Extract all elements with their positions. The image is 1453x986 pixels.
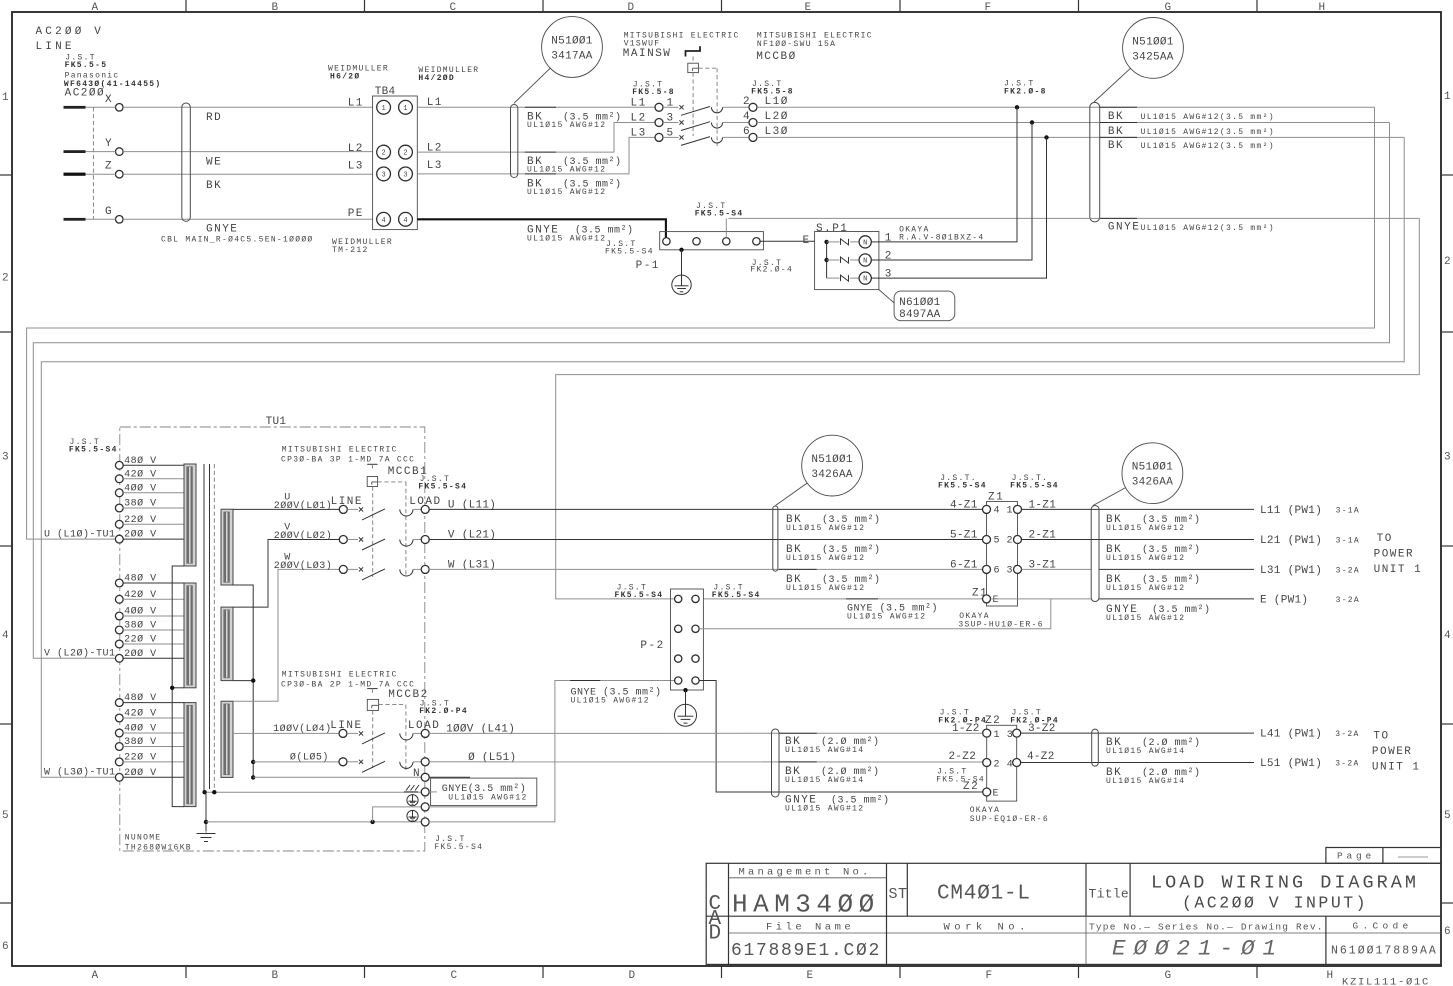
svg-text:1: 1 [2,92,9,104]
svg-text:GNYE: GNYE [1108,222,1140,234]
svg-text:N51ØØ1: N51ØØ1 [1132,462,1174,474]
wire P-2 row4 to Z2 E [699,681,983,793]
svg-text:HAM34ØØ: HAM34ØØ [732,890,880,920]
svg-text:ST: ST [889,886,908,903]
balloon N51001 3426AA left [776,435,863,505]
wire L51 emphasized segment [779,761,817,763]
P-1 terminal 1 [663,238,670,245]
svg-text:2-Z2: 2-Z2 [949,751,977,763]
TU1 output terminal frame 777 [404,785,419,792]
svg-text:L2: L2 [631,113,647,125]
P-2 terminal pair 2 [675,625,682,632]
ground TU1 frame [197,833,216,842]
svg-text:L51 (PW1): L51 (PW1) [1260,758,1322,770]
Z1 pin E [983,595,991,603]
svg-text:N: N [863,276,867,284]
svg-text:4-Z1: 4-Z1 [950,499,978,511]
cable marker right (3425AA) [1090,102,1100,222]
Z2 pin 3 (3-Z2) [1013,729,1021,737]
svg-text:E: E [993,788,1000,799]
svg-text:NF1ØØ-SWU 15A: NF1ØØ-SWU 15A [757,40,836,49]
wire G-PE (GNYE) [86,218,116,220]
svg-text:UL1Ø15 AWG#12: UL1Ø15 AWG#12 [786,524,865,533]
P-1 terminal 2 [693,238,700,245]
Z1 pin 4 (4-Z1) [983,505,991,513]
svg-text:EØØ21-Ø1: EØØ21-Ø1 [1112,936,1284,962]
svg-text:G.Code: G.Code [1353,921,1413,932]
svg-text:L3: L3 [631,127,647,139]
svg-text:E: E [803,235,811,247]
MAINSW linkage dashed lines [692,73,694,136]
TB4 terminal pair 1 [377,100,391,114]
svg-text:4: 4 [743,111,750,123]
svg-text:N: N [863,239,867,247]
svg-text:3SUP-HU1Ø-ER-6: 3SUP-HU1Ø-ER-6 [958,621,1043,630]
svg-text:X: X [105,94,113,106]
svg-text:1: 1 [381,105,385,113]
wire Y-L2 (WE) [86,151,116,153]
svg-text:UL1Ø15 AWG#12: UL1Ø15 AWG#12 [786,584,865,593]
svg-text:C: C [450,2,457,14]
svg-text:6-Z1: 6-Z1 [950,559,978,571]
wire L20 emphasized segment [1100,122,1137,124]
svg-text:UL1Ø15 AWG#14: UL1Ø15 AWG#14 [1106,777,1185,786]
svg-text:2: 2 [743,96,750,108]
svg-text:FK2.Ø-4: FK2.Ø-4 [750,266,793,275]
svg-text:AC2ØØ: AC2ØØ [65,88,106,100]
balloon N51001 3417AA [514,17,603,104]
svg-text:3426AA: 3426AA [1132,477,1174,489]
Z2 pin E [983,788,991,796]
P-1 earth connection [679,248,683,252]
svg-text:UL1Ø15 AWG#12: UL1Ø15 AWG#12 [448,794,527,803]
svg-text:3: 3 [381,172,385,180]
svg-text:L1: L1 [348,98,364,110]
svg-text:6: 6 [743,126,750,138]
Z2 pin 1 (1-Z2) [983,729,991,737]
GNYE callout box at N [431,778,537,806]
MCCB2 linkage dashed lines [372,710,374,768]
svg-text:TO: TO [1373,731,1389,743]
MCCB1 pole U (L11) [339,505,347,513]
wire N to TU1 terminal [253,776,421,778]
svg-text:3: 3 [1007,730,1014,741]
svg-text:1: 1 [1444,91,1451,103]
svg-text:2: 2 [885,251,892,263]
TU1 primary winding 1 [184,464,196,566]
wire GNYE top to right [729,217,1420,219]
svg-text:C: C [451,970,458,982]
P-2 terminal pair 1 [675,595,682,602]
Z2 pin 4 (4-Z2) [1013,759,1021,767]
svg-text:4: 4 [2,630,9,642]
terminal strip P-2 [671,589,704,690]
TU1 secondary common link [233,585,253,777]
cable marker bottom-right [1092,729,1099,766]
MAINSW mechanism box [692,57,694,64]
wire E GNYE to Z1 [703,598,982,600]
svg-text:H6/2Ø: H6/2Ø [330,73,361,82]
svg-text:3-2A: 3-2A [1336,596,1360,605]
svg-text:BK: BK [1108,140,1124,152]
svg-text:6: 6 [1444,926,1451,938]
svg-text:FK5.5-S4: FK5.5-S4 [434,843,483,852]
svg-text:LINE: LINE [331,496,363,508]
wire L2 TB4 to MAINSW [417,123,655,153]
svg-text:N61ØØ1: N61ØØ1 [899,297,941,309]
svg-text:LOAD WIRING DIAGRAM: LOAD WIRING DIAGRAM [1151,873,1419,894]
svg-text:3: 3 [1007,565,1014,576]
svg-text:L31 (PW1): L31 (PW1) [1260,565,1322,577]
svg-text:FK5.5-5: FK5.5-5 [65,61,108,70]
junction L10 to S.P1 [1015,105,1019,109]
svg-text:UNIT 1: UNIT 1 [1372,762,1421,774]
svg-text:TO: TO [1377,533,1393,545]
svg-text:FK2.Ø-P4: FK2.Ø-P4 [938,716,987,725]
P-2 terminal pair 3 [675,655,682,662]
svg-text:1: 1 [403,105,407,113]
svg-text:L1: L1 [631,97,647,109]
svg-text:4-Z2: 4-Z2 [1027,751,1055,763]
wire P-2 row2 to E net [699,599,1051,629]
svg-text:2: 2 [994,759,1001,770]
wire W(L31) emphasized segment [779,568,817,570]
svg-text:N: N [413,768,421,780]
svg-text:KZIL111-Ø1C: KZIL111-Ø1C [1342,977,1430,986]
TB4 terminal pair 4 [377,212,391,226]
wire L10 [757,106,1375,108]
svg-text:UL1Ø15 AWG#12: UL1Ø15 AWG#12 [527,188,606,197]
svg-text:GNYE: GNYE [206,224,238,236]
svg-text:1: 1 [885,232,892,244]
svg-text:Management No.: Management No. [739,867,872,879]
wire L41 emphasized segment [779,732,817,734]
cable marker mid (3417AA) [511,105,518,178]
svg-text:B: B [272,970,279,982]
svg-text:UL1Ø15 AWG#14: UL1Ø15 AWG#14 [785,746,864,755]
svg-text:G: G [1165,2,1172,14]
svg-text:3: 3 [403,172,407,180]
page box [1326,848,1441,864]
svg-text:L3Ø: L3Ø [765,126,789,138]
MCCB1 pole W (L31) [339,565,347,573]
Z1 pin 1 (1-Z1) [1014,505,1022,513]
svg-text:2ØØV(LØ2): 2ØØV(LØ2) [274,530,333,542]
svg-text:TU1: TU1 [266,416,287,428]
TU1 primary winding 2 [184,583,196,688]
svg-text:2: 2 [1444,256,1451,268]
svg-text:Z1: Z1 [972,588,988,600]
svg-text:NUNOME: NUNOME [125,834,162,843]
svg-text:H: H [1327,970,1334,982]
MAINSW pole L2 contact [663,122,679,124]
MAINSW pole L1 contact [663,106,679,108]
svg-text:2ØØV(LØ3): 2ØØV(LØ3) [274,560,333,572]
svg-text:3-2A: 3-2A [1336,567,1360,576]
svg-text:L2Ø: L2Ø [765,111,789,123]
MAINSW pole L2 output terminal pin 4 (L2Ø) [749,119,757,127]
svg-text:POWER: POWER [1372,746,1413,758]
svg-text:UL1Ø15 AWG#12: UL1Ø15 AWG#12 [1106,554,1185,563]
terminal strip P-1 [660,232,764,250]
svg-text:R.A.V-8Ø1BXZ-4: R.A.V-8Ø1BXZ-4 [899,234,984,243]
svg-text:UL1Ø15 AWG#14: UL1Ø15 AWG#14 [1106,747,1185,756]
svg-text:2ØØV(LØ1): 2ØØV(LØ1) [274,500,333,512]
Z1 pin 6 (6-Z1) [983,565,991,573]
svg-text:FK5.5-S4: FK5.5-S4 [712,591,761,600]
svg-text:5: 5 [994,536,1001,547]
MAINSW pole L3 output terminal pin 6 (L3Ø) [749,133,757,141]
wire L20 [757,122,1390,124]
svg-text:4: 4 [994,505,1001,516]
svg-text:TH268ØW16KB: TH268ØW16KB [125,844,192,853]
TU1 core [203,464,205,792]
svg-text:UL1Ø15 AWG#12: UL1Ø15 AWG#12 [527,235,606,244]
wire L30 [757,136,1404,138]
svg-text:N51ØØ1: N51ØØ1 [551,36,593,48]
wire L41 MCCB2 to Z2 [429,732,983,734]
svg-text:POWER: POWER [1374,549,1415,561]
svg-text:F: F [985,2,992,14]
svg-text:D: D [629,970,636,982]
wire W(L30) routing to TU1 [41,137,1404,777]
wire U(L10) routing to TU1 [27,107,1375,539]
Z1 pin 2 (2-Z1) [1014,536,1022,544]
wire TU1 earth2 to P-2 [429,681,674,822]
svg-text:FK5.5-S4: FK5.5-S4 [695,210,744,219]
svg-text:D: D [709,923,722,946]
grid row ticks right [1441,174,1453,176]
svg-text:FK5.5-S4: FK5.5-S4 [605,248,654,257]
wire W(L31) MCCB1 to Z1 [429,568,983,570]
wire P-1 terminal 3 to GNYE bus [725,218,727,237]
svg-text:G: G [1165,970,1172,982]
svg-text:1: 1 [994,730,1001,741]
svg-text:FK2.Ø-8: FK2.Ø-8 [1004,88,1047,97]
svg-text:P-2: P-2 [640,640,664,652]
svg-text:LINE: LINE [330,720,362,732]
balloon N51001 3426AA right [1093,443,1183,506]
title block [706,863,1441,964]
Z1 pin 5 (5-Z1) [983,536,991,544]
svg-text:H4/2ØD: H4/2ØD [418,74,455,83]
svg-text:UL1Ø15 AWG#12: UL1Ø15 AWG#12 [786,554,865,563]
wire P-1 terminal 4 to S.P1 E [760,240,815,242]
svg-text:3: 3 [1444,452,1451,464]
svg-text:G: G [105,206,113,218]
svg-text:OKAYA: OKAYA [970,806,1001,815]
svg-text:UL1Ø15 AWG#12: UL1Ø15 AWG#12 [785,805,864,814]
TB4 terminal pair 2 [377,145,391,159]
TU1 secondary winding 2 [221,607,233,681]
svg-text:FK5.5-S4: FK5.5-S4 [936,776,985,785]
S.P1 arrester element 1 [827,241,840,243]
svg-text:RD: RD [206,112,222,124]
wire V(L20) routing to TU1 [33,123,1389,659]
wire X-L1 (RD) [86,106,116,108]
wire S.P1 pin1 to L10 [879,107,1017,242]
svg-text:2: 2 [1007,536,1014,547]
MAINSW operator handle [686,46,701,56]
svg-text:L1Ø: L1Ø [765,96,789,108]
svg-text:2: 2 [381,150,385,158]
svg-text:V (L2Ø)-TU1: V (L2Ø)-TU1 [44,648,116,660]
svg-text:1ØØV(LØ4): 1ØØV(LØ4) [273,723,332,735]
wire E out [991,598,1092,600]
dashed cable boundary at source [92,107,94,219]
svg-text:FK5.5-S4: FK5.5-S4 [1010,482,1059,491]
svg-text:UL1Ø15 AWG#12: UL1Ø15 AWG#12 [527,121,606,130]
wire U 200V(L01) secondary to MCCB1 [233,508,339,510]
svg-text:MITSUBISHI ELECTRIC: MITSUBISHI ELECTRIC [282,446,398,455]
MCCB1 linkage dashed lines [372,487,374,578]
Z2 pin 2 (2-Z2) [983,759,991,767]
wire GNYE emphasized segment [1100,217,1137,219]
svg-text:3425AA: 3425AA [1132,52,1174,64]
svg-text:1: 1 [1007,505,1014,516]
P-1 terminal 4 [753,238,760,245]
svg-text:L41 (PW1): L41 (PW1) [1260,729,1322,741]
TU1 output terminal earth 2 [407,810,418,821]
svg-text:N51ØØ1: N51ØØ1 [1132,37,1174,49]
svg-text:L21 (PW1): L21 (PW1) [1260,535,1322,547]
P-2 earth connection [683,688,687,692]
wire 0(L05) to MCCB2 [253,761,339,763]
grid column ticks bottom [185,966,187,978]
balloon N61001 8497AA [879,290,955,321]
cable marker CBL MAIN [182,103,191,221]
svg-text:617889E1.CØ2: 617889E1.CØ2 [731,941,881,961]
TU1 output terminal earth 1 [407,795,418,806]
svg-text:Z: Z [105,161,113,173]
wire Z1 pin1 out [1022,508,1255,510]
svg-text:MCCBØ: MCCBØ [756,51,797,63]
svg-text:4: 4 [1444,630,1451,642]
svg-text:BK: BK [206,180,222,192]
svg-text:2: 2 [2,273,9,285]
svg-text:8497AA: 8497AA [899,309,941,321]
wire E emphasized segment [846,598,878,600]
wire N stub [429,791,437,793]
svg-text:UL1Ø15 AWG#12: UL1Ø15 AWG#12 [847,613,926,622]
svg-text:3: 3 [2,452,9,464]
svg-text:L2: L2 [348,143,364,155]
Z1 pin 3 (3-Z1) [1014,565,1022,573]
svg-text:N51ØØ1: N51ØØ1 [811,454,853,466]
S.P1 arrester element 3 [827,277,840,279]
wire Z1 pin3 out [1022,568,1092,570]
svg-text:BK: BK [1108,111,1124,123]
svg-text:A: A [92,2,99,14]
svg-text:F: F [986,970,993,982]
svg-text:L3: L3 [348,160,364,172]
svg-text:5: 5 [1444,810,1451,822]
svg-text:5: 5 [2,810,9,822]
svg-text:FK5.5-S4: FK5.5-S4 [615,591,664,600]
TU1 terminal 5 link [373,807,422,822]
svg-text:UL1Ø15 AWG#12(3.5 mm²): UL1Ø15 AWG#12(3.5 mm²) [1141,224,1275,233]
svg-text:S.P1: S.P1 [816,223,848,235]
wire earth1 stub [429,806,537,808]
svg-text:U (L1Ø)-TU1: U (L1Ø)-TU1 [44,529,116,541]
wire L30 emphasized segment [1100,136,1137,138]
MCCB1 operator [367,463,377,465]
wire L1 TB4 to MAINSW [417,106,655,108]
grid row ticks left [0,174,12,176]
wire S.P1 pin3 to L30 [879,137,1047,278]
wire L3 emphasized segment [525,173,556,175]
wire U(L11) MCCB1 to Z1 [429,508,983,510]
svg-text:AC2ØØ V: AC2ØØ V [36,26,105,38]
svg-text:Ø(LØ5): Ø(LØ5) [290,752,329,764]
svg-text:FK5.5-S4: FK5.5-S4 [938,482,987,491]
svg-text:FK5.5-S4: FK5.5-S4 [418,483,467,492]
S.P1 arrester element 2 [827,259,840,261]
wire L10 emphasized segment [1100,106,1137,108]
wire GNYE routing to P-2 [556,218,1420,599]
svg-text:CP3Ø-BA 3P 1-MD 7A CCC: CP3Ø-BA 3P 1-MD 7A CCC [281,456,415,465]
supply lug Z [64,173,86,176]
TU1 screen to frame wire [204,791,421,793]
wire L3 TB4 to MAINSW [417,137,655,174]
MCCB2 pole 100V (L41) [339,729,347,737]
svg-text:L2: L2 [427,143,443,155]
wire L51 MCCB2 to Z2 [429,761,983,763]
P-2 terminal pair 4 [675,677,682,684]
svg-text:UL1Ø15 AWG#14: UL1Ø15 AWG#14 [785,776,864,785]
svg-text:N61ØØ17889AA: N61ØØ17889AA [1331,945,1438,958]
svg-text:4: 4 [1007,759,1014,770]
TU1 frame ground stem [205,792,207,831]
svg-text:D: D [628,2,635,14]
TU1 secondary winding 1 [221,509,233,585]
svg-text:FK2.Ø-P4: FK2.Ø-P4 [1010,716,1059,725]
cable marker mid-left (3426AA) [773,506,778,571]
TB4 terminal pair 3 [377,167,391,181]
wire 100V(L04) secondary tap to MCCB2 [233,732,339,734]
svg-text:3426AA: 3426AA [811,469,853,481]
svg-text:H: H [1319,2,1326,14]
svg-text:6: 6 [994,565,1001,576]
wire PE TB4 to P-1 [417,219,666,237]
svg-text:(AC2ØØ V INPUT): (AC2ØØ V INPUT) [1182,894,1368,913]
cable marker bottom-left [772,729,780,797]
svg-text:Title: Title [1089,887,1130,902]
wire GNYE emphasized segment at P-2 [570,680,600,682]
wire Z1 pin2 out [1022,539,1255,541]
svg-text:N: N [863,258,867,266]
svg-text:UL1Ø15 AWG#12(3.5 mm²): UL1Ø15 AWG#12(3.5 mm²) [1141,128,1275,137]
svg-text:UL1Ø15 AWG#12: UL1Ø15 AWG#12 [571,697,650,706]
svg-text:Type No.— Series No.— Drawing: Type No.— Series No.— Drawing Rev. [1089,922,1324,933]
svg-text:CBL MAIN_R-Ø4C5.5EN-1ØØØØ: CBL MAIN_R-Ø4C5.5EN-1ØØØØ [161,236,314,245]
junction L30 to S.P1 [1044,135,1048,139]
wire Z-L3 (BK) [86,173,116,175]
svg-text:PE: PE [348,208,364,220]
svg-text:MITSUBISHI ELECTRIC: MITSUBISHI ELECTRIC [282,671,398,680]
svg-text:CM4Ø1-L: CM4Ø1-L [937,883,1031,906]
svg-text:LINE: LINE [36,41,75,53]
wire V(L21) MCCB1 to Z1 [429,539,983,541]
svg-text:W (L3Ø)-TU1: W (L3Ø)-TU1 [44,767,116,779]
svg-text:UL1Ø15 AWG#12: UL1Ø15 AWG#12 [1106,614,1185,623]
svg-text:3-1A: 3-1A [1336,507,1360,516]
svg-text:MAINSW: MAINSW [623,48,672,60]
svg-text:E: E [805,2,812,14]
svg-text:Work No.: Work No. [944,922,1030,934]
supply lug X [64,106,86,109]
S.P1 internal bus [826,242,828,278]
